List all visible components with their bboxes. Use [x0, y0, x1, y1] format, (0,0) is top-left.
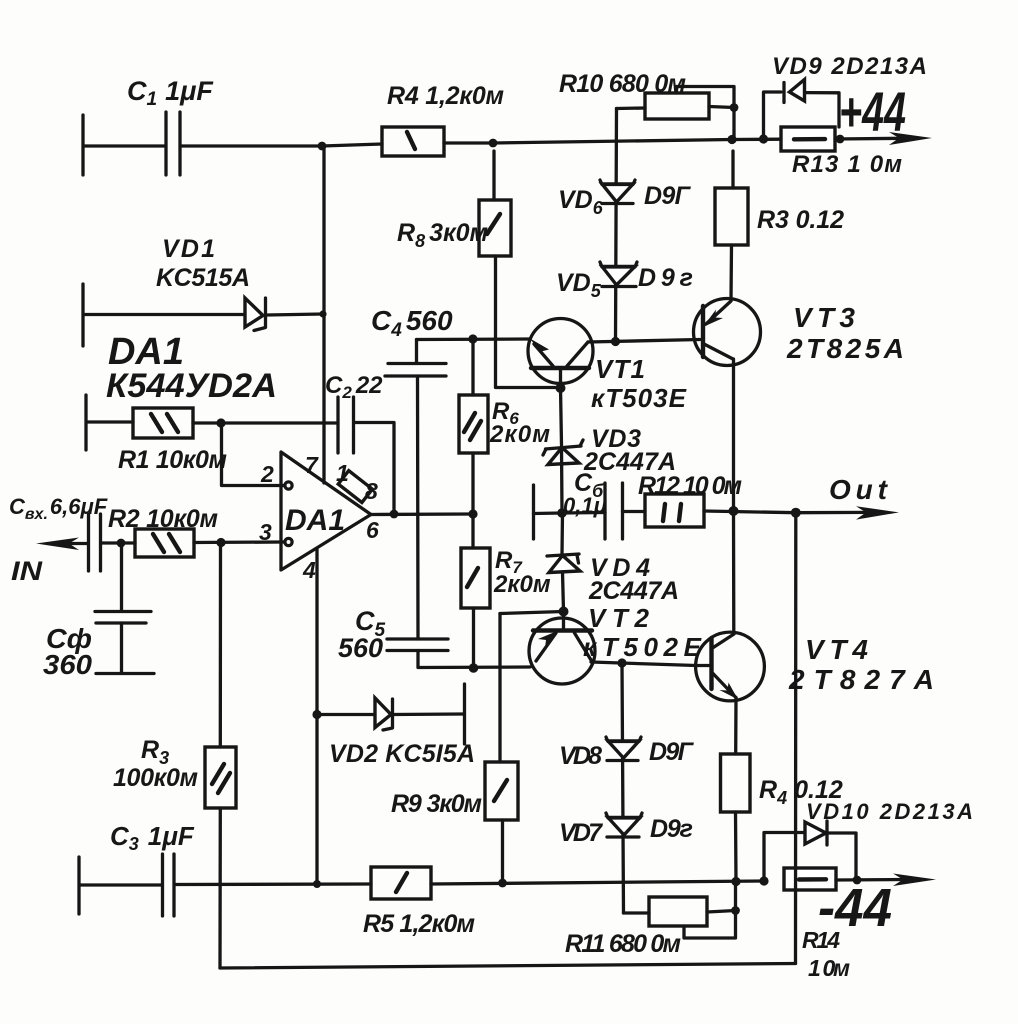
wire VD7 string to R11: [624, 911, 650, 914]
node VT3 column junction: [727, 135, 736, 144]
label D9G right of VD7: [650, 815, 693, 843]
node VD10 loop left junction: [759, 876, 768, 885]
wire C6 to R12: [623, 510, 646, 513]
label 2T825A: [786, 333, 904, 364]
label D9G right of VD6: [644, 182, 692, 210]
node R14 right junction: [853, 876, 862, 885]
label 360: [43, 649, 92, 680]
svg-text:360: 360: [43, 649, 92, 680]
transistor VT1: [528, 319, 593, 389]
diode VD6 D9G: [600, 180, 635, 204]
diode VD5 D9G: [600, 262, 637, 287]
node VD5 string junction: [611, 337, 620, 346]
svg-text:VD9 2D213A: VD9 2D213A: [772, 53, 927, 80]
pin 1 label: [336, 460, 349, 486]
wire R4 to node: [444, 141, 493, 144]
diode VD7 D9G: [606, 813, 642, 837]
svg-text:R12 10 0м: R12 10 0м: [638, 472, 742, 500]
svg-text:6: 6: [366, 517, 379, 543]
wire VT4 collector up to Out: [732, 511, 736, 634]
wire VD3 column: [561, 388, 562, 445]
resistor R2: [135, 529, 194, 557]
resistor R13 (fuse style): [781, 127, 835, 151]
label VD9 2D213A: [772, 53, 927, 80]
svg-text:R13 1 0м: R13 1 0м: [792, 151, 902, 178]
label C3 1uF: [110, 821, 195, 854]
svg-text:C4560: C4560: [371, 305, 453, 341]
wire VD8 string vertical: [622, 663, 624, 913]
IN arrowhead: [36, 538, 79, 551]
label R13 1 Om: [792, 151, 902, 178]
resistor R5: [371, 867, 431, 899]
diode VD10 loop: [764, 821, 856, 881]
label C1 1uF: [127, 76, 214, 110]
resistor R7: [461, 514, 490, 668]
resistor R3 0.12: [715, 151, 748, 300]
label R1 10kOm: [118, 446, 227, 474]
node VT4 column bottom junction: [731, 877, 740, 886]
transistor VT4: [696, 632, 765, 701]
resistor R4: [382, 127, 444, 156]
wire R10 left: [617, 106, 646, 110]
label R7: [495, 547, 523, 577]
node R6 R7 junction: [468, 509, 477, 518]
svg-text:VD2 KC5I5A: VD2 KC5I5A: [329, 740, 475, 768]
svg-text:100к0м: 100к0м: [113, 764, 198, 792]
resistor R14 (fuse style): [784, 868, 836, 890]
wire R1 left: [87, 420, 133, 423]
wire to Out arrow: [796, 511, 870, 515]
wire rail to -44 arrow: [836, 878, 905, 882]
label D9G right of VD5: [638, 264, 693, 292]
node C5 R7 junction: [469, 663, 479, 673]
label KT502E: [583, 632, 702, 662]
wire R10 top hook: [677, 87, 735, 140]
wire R11 bottom hook: [684, 882, 736, 939]
label 2C447A upper: [583, 448, 676, 476]
pin 2 label: [260, 461, 274, 487]
svg-text:8: 8: [365, 478, 378, 504]
pin 6 label: [366, 517, 379, 543]
wire pin6 output: [371, 512, 473, 516]
label VD6: [558, 186, 604, 218]
svg-text:VT2: VT2: [588, 603, 650, 633]
node Cf junction: [117, 539, 126, 548]
label Cf: [46, 623, 92, 654]
wire VT1 collector to VT3 base: [588, 340, 700, 343]
-44 arrowhead: [893, 874, 936, 887]
wire VT4 emitter down: [734, 698, 738, 754]
label VT4: [805, 634, 868, 665]
node R11 right junction: [731, 906, 740, 915]
svg-text:VD1: VD1: [162, 235, 215, 263]
label C6: [574, 469, 604, 501]
label VT3: [793, 302, 855, 333]
label Out: [829, 474, 889, 505]
svg-text:D9г: D9г: [638, 264, 693, 292]
wire C1 left: [84, 144, 165, 147]
label K544UD2A: [106, 367, 277, 405]
diode VD9: [784, 80, 805, 103]
wire VD1 to pin7 column: [267, 314, 323, 315]
label R3: [141, 736, 169, 768]
label R14: [802, 927, 840, 953]
node pin7 junction: [318, 142, 327, 151]
wire bracket to pin2: [222, 423, 285, 486]
capacitor C6: [562, 483, 623, 539]
capacitor C3: [163, 854, 175, 916]
zener diode VD1 KC515A: [245, 298, 266, 331]
label R8 3kOm: [397, 219, 488, 251]
wire rail to R13: [732, 138, 781, 142]
wire R11 right: [707, 911, 736, 913]
svg-text:К544УD2А: К544УD2А: [106, 367, 277, 405]
label VD7: [559, 819, 603, 847]
wire VD2 terminal bar: [463, 684, 466, 744]
zener diode VD3 2C447A: [543, 440, 583, 513]
svg-text:R10 680 0м: R10 680 0м: [559, 70, 686, 98]
svg-text:Out: Out: [829, 474, 889, 505]
wire C2 to output column: [355, 423, 395, 515]
wire rail to +44 arrow: [835, 137, 905, 141]
label R9 3kOm: [391, 790, 482, 818]
svg-text:2C447A: 2C447A: [588, 577, 679, 605]
label R14 1 Om: [808, 955, 850, 981]
svg-text:C31μF: C31μF: [110, 821, 195, 854]
svg-text:R83к0м: R83к0м: [397, 219, 488, 251]
svg-text:R4 1,2к0м: R4 1,2к0м: [387, 82, 504, 110]
label R6: [492, 398, 519, 428]
resistor R3 100kOm: [205, 747, 236, 808]
wire C3 left: [80, 883, 162, 886]
capacitor C4: [385, 340, 446, 377]
wire R3 down to feedback: [218, 808, 222, 968]
svg-text:кT503E: кT503E: [591, 383, 687, 413]
node R8 junction: [489, 139, 498, 148]
wire Cvx to R2: [102, 541, 136, 544]
node pin4 VD2 junction: [312, 710, 321, 719]
label 100kOm: [113, 764, 198, 792]
pin 3 circle: [285, 538, 292, 545]
node VT1 base junction: [556, 383, 566, 393]
label 2C447A lower: [588, 577, 679, 605]
svg-text:IN: IN: [11, 556, 43, 586]
node C2 feedback junction: [390, 510, 399, 519]
svg-text:0,1μ: 0,1μ: [563, 493, 607, 518]
wire C4 top row: [417, 337, 530, 341]
resistor R6: [459, 339, 488, 514]
label VD10 2D213A: [806, 799, 973, 824]
zener diode VD2 KC515A: [375, 698, 464, 730]
wire out stub terminal: [534, 485, 563, 539]
label VT2: [588, 603, 650, 633]
node R9 bottom junction: [498, 879, 507, 888]
pin 7 label: [305, 452, 319, 478]
svg-text:2: 2: [260, 461, 274, 487]
svg-text:VD8: VD8: [559, 742, 602, 770]
svg-text:R3 0.12: R3 0.12: [757, 206, 844, 234]
svg-text:7: 7: [305, 452, 319, 478]
label VD1: [162, 235, 215, 263]
svg-text:D9Г: D9Г: [649, 738, 695, 766]
wire R10 right: [709, 107, 734, 108]
label DA1 inside: [285, 504, 345, 537]
label IN: [11, 556, 43, 586]
label Cvx 6,6uF: [9, 494, 108, 523]
diode VD8 D9G: [606, 737, 641, 761]
resistor R10: [645, 93, 709, 119]
wire IN: [70, 542, 88, 545]
label VD8: [559, 742, 602, 770]
wire R8 bracket to VT1: [496, 256, 561, 388]
wire VD2 row: [317, 713, 374, 716]
zener diode VD4 2C447A: [547, 513, 580, 612]
wire C3 to R5: [175, 882, 371, 886]
svg-text:R11 680 0м: R11 680 0м: [565, 930, 681, 958]
label C6 0,1u: [563, 493, 607, 518]
svg-text:2к0м: 2к0м: [489, 421, 550, 448]
capacitor Cf 360: [95, 612, 154, 674]
label VT1: [595, 354, 645, 384]
label KC515A: [156, 264, 250, 292]
wire R1 to C2: [193, 421, 337, 424]
resistor R8: [479, 151, 511, 256]
svg-text:VT1: VT1: [595, 354, 645, 384]
label R11 680 Om: [565, 930, 681, 958]
node R1 junction: [216, 418, 225, 427]
pin 1-8 balance box: [338, 471, 372, 503]
node VD3 out junction: [557, 508, 567, 518]
wire C1 to R4: [181, 144, 382, 146]
svg-text:VT4: VT4: [805, 634, 868, 665]
pin 8 label: [365, 478, 378, 504]
wire VD9 loop right: [805, 93, 839, 127]
label C2 22: [325, 372, 383, 402]
node R13 right junction: [836, 135, 845, 144]
svg-text:Cвх.6,6μF: Cвх.6,6μF: [9, 494, 108, 523]
pin 7 wire: [322, 147, 325, 483]
node VT2 base junction: [559, 607, 569, 617]
capacitor C5: [387, 639, 448, 651]
resistor R9: [485, 762, 518, 883]
wire Cf link: [120, 543, 123, 611]
svg-text:KC515A: KC515A: [156, 264, 250, 292]
label 560: [338, 633, 383, 663]
svg-text:R9 3к0м: R9 3к0м: [391, 790, 482, 818]
svg-text:D9Г: D9Г: [644, 182, 692, 210]
svg-text:2к0м: 2к0м: [493, 571, 551, 598]
wire rail to VT3 column: [493, 140, 732, 144]
svg-text:R1 10к0м: R1 10к0м: [118, 446, 227, 474]
wire R12 to out: [704, 511, 796, 513]
svg-text:560: 560: [338, 633, 383, 663]
capacitor Cvx input: [89, 514, 101, 571]
pin 2 circle: [285, 482, 292, 489]
label R12 10 Om: [638, 472, 742, 500]
wire VD1 left: [84, 313, 246, 316]
diode VD1 terminal bar: [81, 284, 84, 346]
label R3 0.12: [757, 206, 844, 234]
resistor R11: [649, 897, 707, 926]
transistor VT2: [529, 612, 595, 685]
wire VD9 loop left: [764, 92, 782, 139]
svg-text:DA1: DA1: [285, 504, 345, 537]
node R2 right junction: [216, 538, 225, 547]
node out junction: [791, 508, 801, 518]
label VD2 KC515A: [329, 740, 475, 768]
op-amp DA1: [281, 452, 371, 570]
label C4 560: [371, 305, 453, 341]
wire R5 to rail right: [431, 881, 764, 884]
+44 arrowhead: [889, 132, 932, 145]
label R4 0.12: [759, 776, 843, 808]
label R7 2kOm: [493, 571, 551, 598]
svg-text:R5 1,2к0м: R5 1,2к0м: [363, 910, 475, 938]
transistor VT3: [694, 299, 761, 366]
node pin4 bottom junction: [313, 880, 321, 888]
wire VD6 string vertical: [616, 109, 617, 342]
svg-text:4: 4: [302, 557, 316, 583]
label R4 1,2kOm: [387, 82, 504, 110]
wire R9 top link: [500, 612, 564, 763]
wire R2 to pin3: [194, 540, 284, 544]
label VD5: [556, 269, 602, 301]
capacitor C1 terminal bar: [81, 115, 84, 175]
svg-text:1: 1: [336, 460, 349, 486]
label -44: [818, 878, 892, 938]
label D9G right of VD8: [649, 738, 695, 766]
node VD1 junction: [319, 310, 326, 317]
label DA1 heading: [108, 331, 184, 373]
label R6 2kOm: [489, 421, 550, 448]
wire VT2 collector to VT4 base: [591, 662, 712, 666]
resistor R1: [133, 408, 193, 438]
resistor R12: [645, 494, 704, 527]
label C5: [355, 606, 386, 641]
wire C5 to VT2 emitter: [418, 651, 530, 668]
svg-text:R40.12: R40.12: [759, 776, 843, 808]
pin 3 label: [259, 519, 272, 545]
pin 4 wire: [315, 549, 318, 884]
svg-text:C11μF: C11μF: [127, 76, 214, 110]
svg-text:R14: R14: [802, 927, 840, 953]
svg-text:VT3: VT3: [793, 302, 855, 333]
label 2T827A: [788, 664, 934, 695]
wire R2 node down to R3: [219, 543, 222, 747]
wire feedback vertical: [794, 513, 798, 964]
capacitor C2: [338, 397, 354, 453]
label KT503E: [591, 383, 687, 413]
node R13 left junction: [759, 134, 768, 143]
svg-text:1 0м: 1 0м: [808, 955, 850, 981]
svg-text:D9г: D9г: [650, 815, 693, 843]
capacitor C1: [166, 112, 180, 175]
label VD4: [590, 554, 650, 582]
resistor R4 0.12: [721, 754, 751, 882]
svg-text:R2 10к0м: R2 10к0м: [108, 505, 218, 533]
capacitor C3 terminal bar: [77, 857, 80, 914]
label +44: [839, 80, 906, 143]
label VD3: [591, 425, 641, 453]
resistor R1 terminal bar: [84, 395, 87, 450]
wire feedback bottom: [220, 964, 796, 969]
svg-text:VD7: VD7: [559, 819, 603, 847]
node C4 R6 junction: [468, 334, 477, 343]
pin 4 label: [302, 557, 316, 583]
label R2 10kOm: [108, 505, 218, 533]
node VD8 string junction: [617, 658, 626, 667]
node collectors junction: [729, 506, 739, 516]
Out arrowhead: [856, 506, 899, 519]
label R10 680 Om: [559, 70, 686, 98]
label R5 1,2kOm: [363, 910, 475, 938]
wire VT3 collector down to Out: [732, 359, 735, 511]
node R10 right junction: [730, 103, 739, 112]
wire C4 to C5: [416, 376, 420, 639]
